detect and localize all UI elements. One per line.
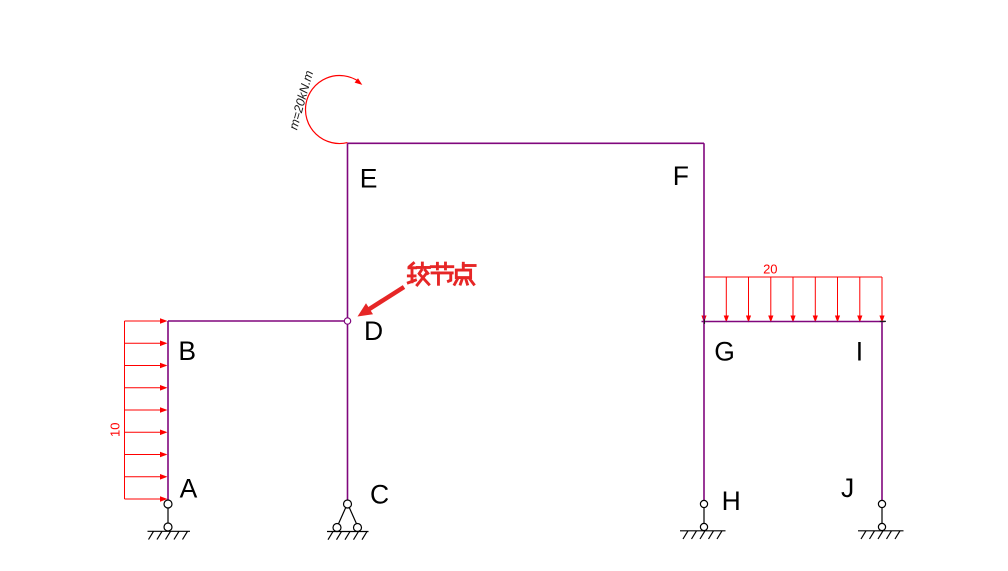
svg-text:10: 10 xyxy=(108,423,123,437)
wire column E-D xyxy=(347,143,349,317)
moment arrowhead xyxy=(355,78,363,85)
hinge circle node D xyxy=(344,318,350,324)
svg-text:D: D xyxy=(364,316,383,346)
svg-text:m=20kN.m: m=20kN.m xyxy=(286,69,316,131)
wire beam B-D xyxy=(168,320,344,322)
wire column B-A xyxy=(167,321,169,500)
support H (link support) xyxy=(680,500,726,539)
char 节 xyxy=(431,263,453,284)
wire column D-C xyxy=(347,324,349,500)
annotation arrow to D xyxy=(358,287,405,317)
support A (link support) xyxy=(148,500,191,540)
svg-text:E: E xyxy=(360,163,378,193)
svg-text:J: J xyxy=(841,473,854,503)
svg-text:G: G xyxy=(714,336,735,366)
svg-text:I: I xyxy=(856,336,863,366)
support C (double link pinned support) xyxy=(327,500,369,540)
svg-text:B: B xyxy=(178,336,196,366)
svg-text:C: C xyxy=(370,480,389,510)
char 点 xyxy=(455,263,476,284)
wire column F-H xyxy=(703,143,705,500)
distributed load q=10 on column AB xyxy=(125,318,168,502)
svg-text:F: F xyxy=(673,161,689,191)
distributed load q=20 on beam G-I xyxy=(701,277,884,323)
tick at beam G-I right end xyxy=(880,320,886,322)
annotation hinge text 铰节点 (drawn as strokes) xyxy=(408,263,475,285)
char 铰 xyxy=(408,263,429,285)
support J (link support) xyxy=(858,500,904,539)
moment arc m=20kN.m at E xyxy=(306,76,359,144)
tick at beam G-I left end xyxy=(704,319,706,324)
svg-text:20: 20 xyxy=(763,261,777,276)
wire column I-J xyxy=(881,322,883,501)
svg-text:A: A xyxy=(180,474,198,504)
svg-text:H: H xyxy=(722,486,741,516)
wire beam G-I xyxy=(702,321,885,323)
wire beam E-F xyxy=(348,142,705,144)
